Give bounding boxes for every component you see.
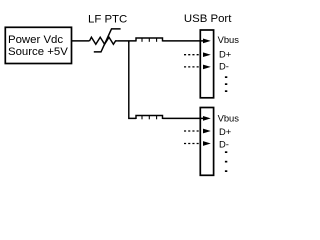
continuation dots (port 1) [225,76,227,92]
USB port 2 connector box [200,108,213,176]
svg-text:D+: D+ [219,126,232,137]
PTC slash mark of R1 [94,29,121,52]
power source V1 box [5,27,71,63]
ferrite bead FB2 (bottom branch) [136,116,163,120]
dashed arrow D- (port 1) [184,65,211,70]
dashed arrow D+ (port 1) [184,52,211,57]
wire: source output to PTC [72,40,90,42]
dashed arrow D+ (port 2) [184,129,211,134]
wire: vertical branch from node A [129,41,136,119]
svg-text:Source +5V: Source +5V [8,46,68,58]
arrow: Vbus into USB port 2 [203,116,211,121]
continuation dots (port 2) [225,151,227,172]
wire: FB1 to USB port 1 [163,40,205,42]
USB port 1 connector box [200,30,213,98]
svg-text:LF PTC: LF PTC [88,13,127,25]
node A: branch junction [128,41,130,43]
svg-text:Vbus: Vbus [218,113,240,124]
svg-text:Vbus: Vbus [218,34,240,45]
wire: FB2 to USB port 2 [163,117,205,119]
svg-text:D-: D- [219,138,229,149]
ferrite bead FB1 (top branch) [136,38,163,42]
wire: PTC to node A [118,40,136,42]
svg-text:Power Vdc: Power Vdc [8,34,63,46]
svg-text:D-: D- [219,61,229,72]
svg-text:USB Port: USB Port [184,13,232,25]
svg-text:D+: D+ [219,49,232,60]
dashed arrow D- (port 2) [184,141,211,146]
arrow: Vbus into USB port 1 [203,39,211,44]
resistor R1: LF PTC zigzag body [90,37,118,44]
